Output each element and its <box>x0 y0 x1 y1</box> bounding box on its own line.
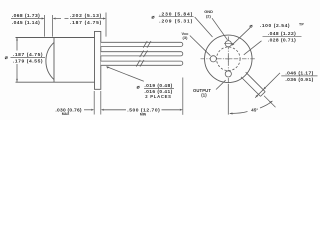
svg-text:⌀: ⌀ <box>152 16 155 21</box>
tab end line <box>261 92 266 97</box>
tab axis extension line <box>264 96 276 108</box>
45 deg arc left segment <box>230 112 248 114</box>
flange outline <box>95 31 101 89</box>
break marks lead 1 <box>143 41 151 48</box>
lens dome arc <box>46 42 54 79</box>
leader from pin circle dia callout <box>232 28 250 45</box>
svg-text:.179 (4.55): .179 (4.55) <box>13 59 43 65</box>
tab width dim line <box>255 73 280 98</box>
svg-text:2 PLACES: 2 PLACES <box>145 94 171 99</box>
extension line at flange rear <box>105 13 107 37</box>
45 deg arc right arrowhead <box>269 101 273 103</box>
leader from can dia .230 callout <box>195 17 213 37</box>
svg-text:(3): (3) <box>183 35 189 40</box>
dim .202 arrowhead right <box>103 18 106 20</box>
tab side line upper <box>246 72 266 92</box>
can face plate line <box>53 38 55 83</box>
leader from .048/.028 callout <box>244 41 262 55</box>
45 deg arc right segment <box>260 101 272 108</box>
lead 1 (top) <box>101 42 183 46</box>
arrowhead of pin circle leader <box>231 43 234 46</box>
svg-text:MIN: MIN <box>140 113 147 117</box>
svg-text:TP: TP <box>299 22 304 26</box>
leader from Vcc label <box>190 36 211 56</box>
bottom dim .030 shaft <box>84 109 91 111</box>
45 deg arc left arrowhead <box>229 113 232 115</box>
lead 2 (middle) <box>101 52 183 56</box>
dim .500 left arrowhead <box>101 109 104 111</box>
tab width dim arrowhead upper <box>263 87 266 90</box>
svg-text:.028 (0.71): .028 (0.71) <box>268 37 296 43</box>
left diameter dim vertical line upper <box>16 38 18 51</box>
left dim arrow down <box>16 79 18 82</box>
svg-text:45°: 45° <box>251 108 258 113</box>
pin 3 (left) <box>210 56 216 62</box>
svg-text:.209 (5.31): .209 (5.31) <box>159 18 193 24</box>
svg-text:.019 (0.48): .019 (0.48) <box>144 83 172 89</box>
lead 3 (bottom) <box>101 61 183 65</box>
svg-text:.068 (1.73): .068 (1.73) <box>12 13 40 19</box>
svg-text:.187 (4.75): .187 (4.75) <box>13 52 43 58</box>
svg-text:MAX: MAX <box>62 112 70 116</box>
extension line at dome base <box>52 15 54 37</box>
dim .202 right shaft <box>102 18 104 20</box>
dim .202 left shaft <box>56 18 69 20</box>
leader arrowhead at lead 3 <box>106 66 109 68</box>
svg-text:.036 (0.91): .036 (0.91) <box>285 77 313 83</box>
vertical centerline <box>227 37 229 85</box>
svg-text:(2): (2) <box>206 14 212 19</box>
extension line flange rear lower <box>100 91 102 115</box>
can bottom edge with left extension <box>16 81 95 83</box>
pin 2 (top) <box>225 41 231 47</box>
pin circle (dashed) <box>217 47 241 71</box>
bottom dim .030 arrowhead <box>91 109 94 111</box>
extension line flange front lower <box>93 91 95 115</box>
svg-text:(1): (1) <box>201 93 207 98</box>
center mark cross <box>225 56 231 62</box>
dim .500 left shaft <box>104 109 126 111</box>
leader for lead diameter callout <box>107 67 144 82</box>
svg-text:⌀: ⌀ <box>137 86 140 91</box>
dim .202 left arrowhead <box>53 18 56 20</box>
break marks lead 2 <box>140 51 148 58</box>
horizontal centerline <box>201 58 257 60</box>
leader from OUTPUT label <box>216 80 226 89</box>
pin 1 (bottom) <box>225 71 231 77</box>
dim .068/.045 dimension line and right arrow <box>42 18 44 20</box>
left diameter dim vertical line lower <box>16 64 18 82</box>
dim .500 arrowhead right <box>180 109 183 111</box>
svg-text:.045 (1.14): .045 (1.14) <box>12 20 40 26</box>
svg-text:⌀: ⌀ <box>5 56 8 61</box>
pin 2 horizontal tick <box>224 43 233 45</box>
can top edge with left extension <box>16 37 95 39</box>
svg-text:⌀: ⌀ <box>250 25 253 30</box>
dim .500 right shaft <box>162 109 180 111</box>
bottom view outer can circle <box>205 35 253 83</box>
tab side line lower <box>241 77 261 97</box>
left dim arrow up <box>16 38 18 41</box>
svg-text:.100 (2.54): .100 (2.54) <box>260 23 290 29</box>
tab width dim arrowhead lower <box>256 94 259 97</box>
dim .068/.045 arrowhead right <box>42 18 45 20</box>
break marks lead 3 <box>136 60 144 67</box>
svg-text:.187 (4.75): .187 (4.75) <box>70 20 102 26</box>
extension line lead tips <box>182 78 184 115</box>
svg-text:.202 (5.13): .202 (5.13) <box>70 13 102 19</box>
leader from GND label <box>212 18 227 40</box>
extension line at lens face <box>44 15 46 37</box>
45 deg dim vertical ray <box>227 84 229 115</box>
